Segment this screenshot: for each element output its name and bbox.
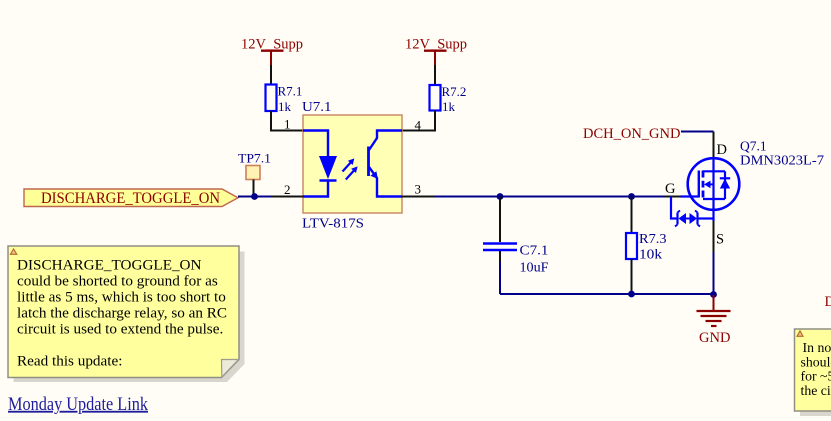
- svg-text:C7.1: C7.1: [520, 243, 549, 258]
- resistor R7.2: [430, 84, 467, 114]
- pin TP7.1: [253, 180, 255, 197]
- svg-text:In normal use this: In normal use this: [803, 340, 831, 355]
- note text: [17, 256, 227, 369]
- transistor Q7.1: [681, 158, 740, 210]
- pin 3 of U7.1: [402, 196, 435, 198]
- svg-text:DISCHARGE_TOGGLE_ON: DISCHARGE_TOGGLE_ON: [17, 256, 202, 273]
- capacitor C7.1: [483, 197, 549, 275]
- svg-text:1k: 1k: [278, 99, 292, 114]
- note text right: [801, 340, 831, 398]
- LED inside U7.1: [303, 131, 337, 197]
- wire DCH_ON_GND to drain: [681, 131, 714, 133]
- svg-text:G: G: [665, 181, 676, 197]
- power port 12V_Supp (right): [405, 37, 467, 66]
- svg-text:4: 4: [415, 118, 422, 133]
- svg-text:should be pressed: should be pressed: [801, 354, 831, 369]
- wire R7.1 to pin 1: [271, 111, 303, 131]
- phototransistor inside U7.1: [369, 131, 403, 197]
- wire C7.1 to rail: [499, 262, 501, 294]
- svg-text:DCH_ON_GND: DCH_ON_GND: [583, 126, 680, 142]
- svg-text:could be shorted to ground for: could be shorted to ground for as: [17, 272, 218, 289]
- node junction at R7.3 top: [628, 193, 635, 200]
- wire pin3 to gate: [435, 196, 665, 198]
- svg-text:the circuit works.: the circuit works.: [801, 383, 831, 398]
- svg-text:1: 1: [284, 117, 291, 132]
- svg-text:R7.1: R7.1: [278, 84, 303, 99]
- svg-text:Monday Update Link: Monday Update Link: [8, 395, 149, 415]
- node junction R7.3 bottom: [628, 291, 635, 298]
- svg-text:10k: 10k: [639, 246, 662, 261]
- source pin of Q7.1: [712, 208, 714, 221]
- svg-text:R7.3: R7.3: [639, 231, 667, 246]
- pin 2 of U7.1: [271, 196, 303, 198]
- svg-text:D: D: [825, 294, 831, 310]
- gate pin of Q7.1: [665, 196, 681, 198]
- svg-text:circuit is used to extend the: circuit is used to extend the pulse.: [17, 320, 223, 337]
- drain pin of Q7.1: [713, 132, 715, 159]
- note box right shadow: [800, 335, 831, 417]
- svg-text:S: S: [716, 232, 724, 248]
- wire 12V to R7.2: [434, 65, 436, 85]
- svg-text:LTV-817S: LTV-817S: [302, 216, 364, 231]
- wire source to rail: [713, 252, 715, 295]
- resistor R7.3: [626, 197, 667, 295]
- svg-text:for ~5 seconds so: for ~5 seconds so: [801, 369, 831, 384]
- node junction at GND: [710, 291, 717, 298]
- svg-text:little as 5 ms, which is too s: little as 5 ms, which is too short to: [17, 288, 226, 305]
- resistor R7.1: [266, 84, 303, 114]
- svg-text:GND: GND: [699, 330, 730, 346]
- note box left: [8, 246, 239, 378]
- test point TP7.1: [246, 166, 260, 180]
- wire ESD to source: [698, 217, 714, 219]
- svg-text:1k: 1k: [442, 99, 456, 114]
- wire R7.2 to pin 4: [402, 111, 435, 131]
- svg-text:Q7.1: Q7.1: [740, 139, 767, 154]
- svg-text:DMN3023L-7: DMN3023L-7: [740, 153, 824, 168]
- note fold corner: [222, 360, 239, 378]
- bottom rail wire: [500, 293, 714, 295]
- node junction at C7.1: [497, 193, 504, 200]
- wire gate ESD branch: [671, 197, 678, 219]
- port DISCHARGE_TOGGLE_ON: [24, 188, 238, 207]
- svg-text:Read this update:: Read this update:: [17, 352, 122, 369]
- node junction at TP7.1: [251, 193, 258, 200]
- wire 12V to R7.1: [270, 65, 272, 85]
- note box right: [795, 329, 831, 411]
- photon arrows: [343, 158, 358, 179]
- svg-text:TP7.1: TP7.1: [238, 151, 271, 166]
- power port 12V_Supp (left): [241, 37, 303, 66]
- svg-text:10uF: 10uF: [520, 259, 550, 274]
- svg-text:D: D: [717, 142, 727, 158]
- svg-text:DISCHARGE_TOGGLE_ON: DISCHARGE_TOGGLE_ON: [41, 188, 220, 207]
- diode ESD pair of Q7.1: [675, 211, 700, 227]
- note marker triangle right: [797, 331, 803, 337]
- note box left shadow: [14, 252, 245, 383]
- svg-text:R7.2: R7.2: [442, 84, 467, 99]
- ground symbol: [697, 295, 731, 346]
- optocoupler U7.1 body: [303, 115, 402, 213]
- wire port to junction: [238, 196, 271, 198]
- svg-text:3: 3: [415, 182, 422, 197]
- svg-text:latch the discharge relay, so: latch the discharge relay, so an RC: [17, 304, 227, 321]
- svg-text:U7.1: U7.1: [302, 99, 332, 114]
- note marker triangle: [10, 249, 16, 254]
- svg-text:2: 2: [284, 182, 291, 197]
